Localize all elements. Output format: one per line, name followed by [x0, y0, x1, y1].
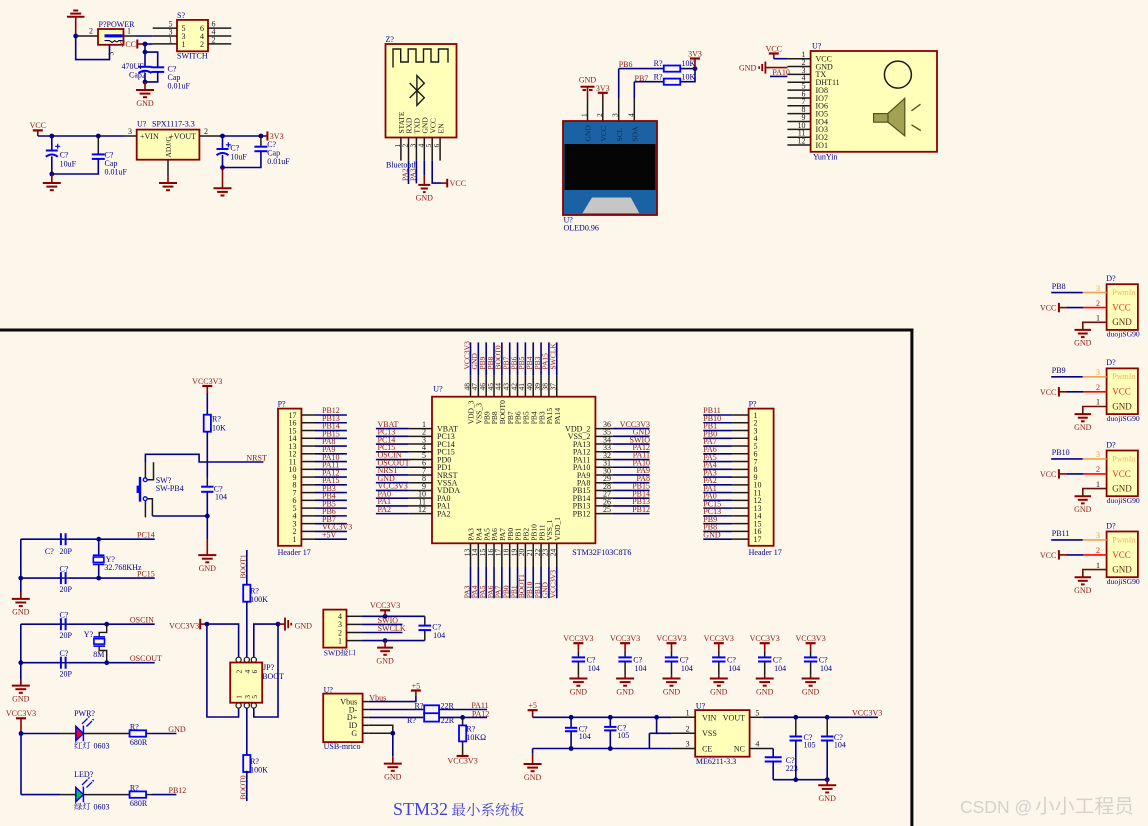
- svg-text:5: 5: [250, 695, 259, 699]
- usb pin stubs: [363, 701, 369, 703]
- connector P? Header17 right box: [749, 409, 774, 546]
- svg-text:6: 6: [250, 670, 259, 674]
- svg-text:Bluetooth: Bluetooth: [386, 161, 418, 170]
- svg-text:GND: GND: [1074, 339, 1092, 348]
- capacitor C? 104 (reset): [201, 487, 213, 492]
- svg-text:6: 6: [432, 144, 441, 148]
- speaker icon: [874, 98, 905, 136]
- resistor R? 10K (PB6 pullup): [664, 66, 681, 72]
- svg-text:U?: U?: [137, 120, 147, 129]
- bluetooth rune icon: [410, 76, 425, 106]
- svg-text:GND: GND: [739, 64, 757, 73]
- svg-text:PB12: PB12: [573, 509, 591, 518]
- wire VCC node down to cap: [144, 44, 146, 67]
- svg-text:U?: U?: [696, 701, 706, 710]
- capacitor C? 104 (decoupling 5): [758, 657, 771, 661]
- capacitor C? Cap 0.01uF (input): [97, 136, 99, 154]
- wire node to ground: [144, 82, 146, 90]
- svg-text:G: G: [351, 729, 357, 738]
- svg-text:SDA: SDA: [631, 126, 640, 142]
- svg-text:2: 2: [1096, 546, 1100, 555]
- resistor R? 100K (BOOT0): [243, 755, 250, 772]
- wire VCC3V3 to JP pin2: [207, 624, 239, 658]
- wire VCC to pin1: [773, 54, 775, 59]
- node junction VCC/switch: [143, 42, 148, 47]
- wire PB6 row: [619, 68, 664, 70]
- me6211 pin stubs right: [750, 716, 763, 718]
- wire PA10 to pin3 TX: [770, 75, 787, 77]
- power port VCC (bluetooth, sideways): [446, 179, 448, 188]
- wire bottom rail to ground: [532, 749, 534, 754]
- node junction pullups: [693, 66, 698, 71]
- ground GND (servo PB11): [1075, 577, 1092, 584]
- power port VCC3V3 (decoupling 5): [760, 642, 770, 644]
- node junction swd gnd: [383, 638, 388, 643]
- svg-text:CSDN @: CSDN @: [960, 797, 1032, 817]
- svg-text:PA10: PA10: [772, 68, 790, 77]
- wire resistor to JP pin4: [246, 602, 248, 658]
- svg-text:VCC: VCC: [1112, 387, 1131, 397]
- wire ID jog: [369, 725, 393, 733]
- svg-text:0603: 0603: [94, 803, 110, 812]
- svg-text:PB8: PB8: [1052, 282, 1066, 291]
- svg-text:+VOUT: +VOUT: [169, 132, 196, 141]
- node junction vout c105: [793, 715, 798, 720]
- svg-text:C?: C?: [45, 547, 54, 556]
- wire vcc to cap 6: [810, 643, 812, 651]
- power port VCC3V3 down (usb): [457, 755, 469, 757]
- ground GND (decoupling 3): [663, 679, 681, 686]
- ground (output caps): [214, 188, 232, 195]
- svg-text:104: 104: [834, 740, 846, 749]
- svg-text:+VIN: +VIN: [140, 132, 159, 141]
- node junction 10uF: [49, 134, 54, 139]
- node junction usb gnd: [390, 731, 395, 736]
- svg-text:104: 104: [774, 664, 786, 673]
- wire SCL down: [618, 69, 620, 98]
- mcu left pin stubs: [409, 428, 432, 430]
- svg-text:3V3: 3V3: [596, 84, 610, 93]
- svg-text:R?: R?: [654, 72, 663, 81]
- power port VCC3V3 (leds): [16, 717, 26, 719]
- svg-text:VCC: VCC: [120, 40, 136, 49]
- svg-text:GND: GND: [12, 694, 30, 703]
- svg-text:104: 104: [579, 732, 591, 741]
- wire resistor to node (PB7): [681, 69, 696, 82]
- svg-text:ADJ/G: ADJ/G: [164, 136, 173, 158]
- wire OSCOUT row: [21, 662, 63, 664]
- ground GND (decoupling 1): [569, 679, 587, 686]
- svg-text:20P: 20P: [60, 585, 73, 594]
- svg-text:PA12: PA12: [472, 710, 490, 719]
- svg-text:VCC3V3: VCC3V3: [656, 634, 686, 643]
- svg-text:duojiSG90: duojiSG90: [1107, 330, 1140, 339]
- wire 10uF bottom: [51, 156, 53, 174]
- wire 0.01uF bottom to node: [52, 159, 99, 174]
- wire JP pin3 to resistor: [246, 708, 248, 757]
- resistor R? 680R (PWR): [130, 730, 147, 736]
- resistor R? 10K (PB7 pullup): [664, 79, 681, 85]
- svg-text:100K: 100K: [250, 765, 268, 774]
- svg-text:GND: GND: [1112, 317, 1132, 327]
- header17 right pin stubs and wires: [732, 414, 749, 416]
- node junction crystal bottom: [96, 576, 101, 581]
- svg-text:105: 105: [617, 731, 629, 740]
- pin stub VIN: [125, 135, 137, 137]
- svg-text:VDD_1: VDD_1: [553, 517, 562, 541]
- svg-text:PC14: PC14: [137, 531, 155, 540]
- svg-text:10KΩ: 10KΩ: [466, 733, 486, 742]
- wire vcc to cap 3: [671, 643, 673, 651]
- svg-text:1: 1: [580, 113, 589, 117]
- resistor R? 22R (D-): [424, 705, 439, 713]
- wire Vbus to +5: [369, 696, 416, 702]
- power port VCC3V3 (decoupling 6): [806, 642, 816, 644]
- svg-text:GND: GND: [136, 99, 154, 108]
- svg-text:1: 1: [1096, 314, 1100, 323]
- svg-text:VCC3V3: VCC3V3: [563, 634, 593, 643]
- wire D+ to resistor: [369, 716, 424, 718]
- node junction OSCIN: [104, 622, 109, 627]
- wire to PA11: [439, 709, 487, 711]
- svg-text:duojiSG90: duojiSG90: [1107, 577, 1140, 586]
- svg-text:U?: U?: [433, 385, 443, 394]
- wire cap to gnd 3: [671, 662, 673, 676]
- svg-text:GND: GND: [376, 656, 394, 665]
- wire vss to ce branch: [649, 732, 656, 734]
- svg-text:GND: GND: [416, 194, 434, 203]
- servo connector D? (PB11) box: [1107, 532, 1138, 578]
- svg-text:STM32: STM32: [393, 799, 448, 819]
- capacitor C? 104 (decoupling 4): [712, 657, 725, 661]
- led LED? green: [76, 777, 94, 802]
- wire OLED pin1: [587, 87, 589, 98]
- svg-text:Cap2: Cap2: [129, 71, 146, 80]
- svg-text:104: 104: [728, 664, 740, 673]
- OLED connector trapezoid: [582, 198, 639, 214]
- wire to ground (8M): [20, 663, 22, 686]
- connector SWD box: [323, 610, 346, 648]
- svg-text:2: 2: [595, 113, 604, 117]
- svg-text:3: 3: [1096, 368, 1100, 377]
- svg-text:1: 1: [1096, 480, 1100, 489]
- wire GND pin (PB8): [1083, 322, 1107, 330]
- wire NRST node down to cap: [206, 462, 208, 477]
- wire pullup to VCC3V3: [462, 741, 464, 754]
- svg-text:GND: GND: [384, 772, 402, 781]
- wire VCC3V3 loop to JP pin1: [207, 624, 239, 717]
- wire to ground (output): [222, 168, 224, 189]
- ground GND (servo PB9): [1075, 414, 1092, 421]
- svg-text:VCC3V3: VCC3V3: [704, 634, 734, 643]
- svg-text:PB12: PB12: [169, 786, 187, 795]
- capacitor C? 20P (OSCOUT): [61, 657, 66, 669]
- svg-text:8M: 8M: [93, 650, 104, 659]
- svg-text:104: 104: [635, 664, 647, 673]
- svg-text:D?: D?: [1106, 358, 1116, 367]
- mcu right pin stubs: [595, 428, 612, 430]
- svg-text:10uF: 10uF: [230, 153, 247, 162]
- node junction rail c104: [569, 715, 574, 720]
- servo connector D? (PB9) box: [1107, 368, 1138, 414]
- me6211 pin stubs left: [672, 716, 695, 718]
- switch SW? SW-PB4: [144, 463, 146, 478]
- ground GND (me6211 out): [818, 785, 836, 792]
- svg-text:GND: GND: [1112, 484, 1132, 494]
- ground GND (decoupling 5): [756, 679, 774, 686]
- node junction led rail: [19, 731, 24, 736]
- svg-text:GND: GND: [524, 773, 542, 782]
- comment red led 0603: [74, 742, 82, 749]
- ground GND (bluetooth): [418, 185, 430, 192]
- mcu bottom pin stubs: [470, 543, 472, 567]
- led PWR? red: [76, 716, 94, 741]
- wire GND loop to JP pin5: [254, 624, 278, 717]
- capacitor C? 10uF (output, polarized): [222, 136, 224, 149]
- svg-text:VCC: VCC: [766, 44, 782, 53]
- wire GND to JP pin6: [254, 624, 278, 658]
- svg-text:1: 1: [293, 535, 297, 544]
- svg-text:PA14: PA14: [553, 408, 562, 425]
- svg-text:LED?: LED?: [74, 770, 94, 779]
- svg-text:D?: D?: [1106, 440, 1116, 449]
- mcu top pin stubs: [470, 375, 472, 397]
- svg-text:GND: GND: [710, 687, 728, 696]
- node junction output gnd: [220, 165, 225, 170]
- resistor R? 10KΩ (usb pullup): [459, 725, 466, 741]
- wire gnd port to node: [278, 623, 285, 625]
- node junction crystal top: [96, 537, 101, 542]
- comment green led 0603: [74, 803, 82, 811]
- svg-text:EN: EN: [436, 123, 445, 134]
- svg-text:PB10: PB10: [1052, 448, 1070, 457]
- svg-text:S?: S?: [177, 11, 185, 20]
- svg-text:GND: GND: [199, 564, 217, 573]
- svg-text:VCC3V3: VCC3V3: [549, 570, 558, 599]
- wire PB10 to PwmIn: [1051, 458, 1083, 460]
- node junction output 0.01uF: [259, 134, 264, 139]
- wire cap to gnd 6: [810, 662, 812, 676]
- pin ADJ to ground: [167, 160, 169, 177]
- svg-text:GND: GND: [584, 125, 593, 142]
- antenna square wave symbol: [393, 49, 448, 68]
- node junction left rail 32k: [18, 576, 23, 581]
- svg-text:ME6211-3.3: ME6211-3.3: [696, 757, 736, 766]
- wire PC14 row: [21, 538, 63, 540]
- node junction P2: [73, 34, 78, 39]
- swd pin stubs: [347, 615, 362, 617]
- svg-text:104: 104: [588, 664, 600, 673]
- wire bottom rail (me6211): [533, 748, 672, 750]
- OLED module U? body: [563, 121, 657, 215]
- svg-text:GND: GND: [1074, 505, 1092, 514]
- svg-text:24: 24: [549, 548, 558, 556]
- svg-text:VCC: VCC: [450, 179, 466, 188]
- wire swd pin4 row: [362, 615, 425, 617]
- svg-text:VCC3V3: VCC3V3: [169, 621, 199, 630]
- node junction PA12 pullup: [460, 715, 465, 720]
- svg-text:0.01uF: 0.01uF: [168, 82, 191, 91]
- power port VCC (YunYin): [769, 52, 779, 54]
- capacitor C? 20P (PC14): [61, 533, 66, 545]
- wire to pullup resistor: [462, 717, 464, 725]
- svg-text:SWCLK: SWCLK: [378, 624, 406, 633]
- svg-text:VCC3V3: VCC3V3: [370, 601, 400, 610]
- svg-text:PWR?: PWR?: [74, 709, 95, 718]
- wire vcc to cap 1: [577, 643, 579, 651]
- svg-text:20P: 20P: [60, 547, 73, 556]
- wire node to ground (reset): [206, 516, 208, 539]
- wire BOOT1 to resistor: [246, 550, 248, 586]
- svg-text:duojiSG90: duojiSG90: [1107, 414, 1140, 423]
- svg-text:Header 17: Header 17: [278, 548, 311, 557]
- svg-text:GND: GND: [12, 608, 30, 617]
- wire vss branch: [657, 717, 672, 733]
- svg-text:R?: R?: [654, 59, 663, 68]
- svg-text:GND: GND: [1112, 401, 1132, 411]
- crystal Y? 32.768KHz: [98, 539, 100, 555]
- wire POWER pin1 to switch pin3: [124, 35, 136, 37]
- wire led to resistor: [83, 733, 129, 735]
- svg-text:GND: GND: [756, 687, 774, 696]
- wire left rail 8M: [20, 624, 22, 663]
- svg-text:VCC: VCC: [1040, 470, 1056, 479]
- svg-text:2: 2: [89, 27, 93, 36]
- svg-text:104: 104: [215, 493, 227, 502]
- wire G row: [369, 732, 393, 734]
- node junction swd vcc: [383, 614, 388, 619]
- svg-text:Z?: Z?: [386, 35, 395, 44]
- svg-text:2: 2: [686, 724, 690, 733]
- wire cap2 bottom to node: [144, 73, 146, 82]
- wire VCC to VIN: [37, 130, 39, 136]
- mcu left pin wires: [376, 428, 409, 430]
- wire PC15 row: [21, 577, 63, 579]
- wire led2 to resistor: [83, 794, 129, 796]
- node junction VCC3V3 boot: [205, 622, 210, 627]
- bluetooth pin stubs: [400, 138, 402, 161]
- wire cap to gnd 5: [764, 662, 766, 676]
- node junction rail c105: [608, 715, 613, 720]
- wire NC to cap 223: [772, 749, 774, 758]
- svg-text:SWD: SWD: [324, 648, 341, 657]
- svg-text:0.01uF: 0.01uF: [105, 168, 128, 177]
- svg-text:GND: GND: [295, 621, 313, 630]
- svg-text:100K: 100K: [250, 595, 268, 604]
- svg-text:GND: GND: [1112, 565, 1132, 575]
- wire cap to gnd 1: [577, 662, 579, 676]
- svg-text:VCC: VCC: [30, 121, 46, 130]
- svg-text:0603: 0603: [94, 742, 110, 751]
- connector P? Header17 left box: [278, 409, 301, 546]
- svg-text:duojiSG90: duojiSG90: [1107, 496, 1140, 505]
- wire 0.01uF bottom to node: [145, 72, 158, 82]
- ground GND (8M): [12, 686, 30, 693]
- wire GND pin (PB11): [1083, 570, 1107, 578]
- wire switch bottom to node: [152, 515, 207, 517]
- speaker circle icon: [884, 61, 911, 88]
- wire RXD to PA2: [408, 161, 410, 184]
- wire resistor to GND label: [146, 733, 152, 735]
- resistor R? 10K (reset pullup): [204, 415, 211, 432]
- wire vcc to cap 5: [764, 643, 766, 651]
- pin stub VOUT + wire to 3V3: [199, 135, 219, 137]
- switch pin stubs right: [208, 27, 231, 29]
- capacitor C? 104 (me6211 in): [570, 717, 572, 727]
- resistor R? 22R (D+): [424, 713, 439, 721]
- svg-text:17: 17: [754, 535, 762, 544]
- svg-text:GND: GND: [703, 530, 721, 539]
- node junction cap bottoms: [143, 80, 148, 85]
- node junction 0.01uF: [96, 134, 101, 139]
- svg-text:GND: GND: [1074, 423, 1092, 432]
- svg-text:10uF: 10uF: [60, 160, 77, 169]
- svg-text:C?: C?: [60, 564, 69, 573]
- svg-text:12: 12: [798, 136, 806, 145]
- svg-text:VCC3V3: VCC3V3: [192, 377, 222, 386]
- wire D- to resistor: [369, 709, 424, 711]
- wire VCC3V3 to node: [20, 718, 22, 733]
- wire PB8 to PwmIn: [1051, 292, 1083, 294]
- servo connector D? (PB8) box: [1107, 284, 1138, 330]
- svg-text:CE: CE: [702, 745, 712, 754]
- wire resistor to NRST node: [206, 432, 208, 462]
- power port VCC3V3 (decoupling 1): [573, 642, 583, 644]
- svg-text:VOUT: VOUT: [723, 714, 745, 723]
- svg-text:U?: U?: [812, 42, 822, 51]
- wire resistor to PB12 label: [146, 794, 152, 796]
- svg-text:1: 1: [127, 27, 131, 36]
- svg-text:PwmIn: PwmIn: [1112, 372, 1135, 381]
- power port VCC3V3 (decoupling 4): [714, 642, 724, 644]
- svg-text:C?: C?: [60, 610, 69, 619]
- jumper JP? BOOT box: [236, 657, 241, 662]
- wire PB7 row: [635, 81, 664, 83]
- wire to LED2: [21, 794, 60, 796]
- power port VCC3V3 (decoupling 2): [620, 642, 630, 644]
- svg-text:104: 104: [820, 664, 832, 673]
- svg-text:SWCLK: SWCLK: [549, 343, 558, 370]
- node junction out bottom c104: [825, 777, 830, 782]
- node junction out bottom c105: [793, 777, 798, 782]
- svg-text:YunYin: YunYin: [813, 153, 837, 162]
- wire GND pin down: [423, 161, 425, 176]
- svg-text:25: 25: [603, 505, 611, 514]
- wire POWER pin3 loop to node: [76, 36, 110, 60]
- svg-text:0.01uF: 0.01uF: [267, 157, 290, 166]
- ground GND (reset): [198, 555, 216, 562]
- power port VCC3V3 (reset): [202, 385, 212, 387]
- ground earth (power input): [67, 11, 85, 17]
- svg-text:+5: +5: [528, 701, 537, 710]
- node junction rail vss-branch: [654, 715, 659, 720]
- svg-text:PC15: PC15: [137, 569, 155, 578]
- wire swd cap branch: [424, 616, 426, 625]
- node junction input gnd: [49, 172, 54, 177]
- capacitor C? Cap 0.01uF: [151, 67, 164, 72]
- svg-text:PB12: PB12: [632, 505, 650, 514]
- ground (input caps): [43, 183, 61, 190]
- svg-text:VCC: VCC: [1040, 551, 1056, 560]
- mcu bottom pin wires: [470, 567, 472, 598]
- svg-text:VCC3V3: VCC3V3: [852, 709, 882, 718]
- ground GND (input caps): [136, 90, 154, 97]
- wire swd pin2 SWCLK: [362, 632, 403, 634]
- wire to ground (input): [51, 174, 53, 183]
- capacitor C? 104 (decoupling 6): [804, 657, 817, 661]
- svg-text:3: 3: [1096, 284, 1100, 293]
- YunYin pin stubs and numbers: [787, 58, 810, 60]
